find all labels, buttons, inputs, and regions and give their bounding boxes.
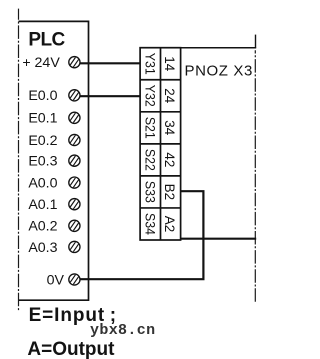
svg-text:Y32: Y32	[142, 85, 158, 107]
svg-text:A0.0: A0.0	[28, 176, 57, 192]
svg-text:24: 24	[162, 88, 178, 103]
svg-text:E0.0: E0.0	[28, 88, 57, 104]
svg-text:S33: S33	[142, 181, 158, 203]
svg-text:S21: S21	[142, 117, 158, 139]
svg-text:B2: B2	[162, 184, 178, 200]
svg-text:A0.2: A0.2	[28, 219, 57, 235]
svg-text:42: 42	[162, 152, 178, 167]
svg-text:S34: S34	[142, 213, 158, 235]
svg-text:PLC: PLC	[28, 30, 65, 51]
svg-text:A0.3: A0.3	[28, 240, 57, 256]
svg-text:A2: A2	[162, 216, 178, 232]
svg-text:E0.2: E0.2	[28, 133, 57, 149]
svg-text:Y31: Y31	[142, 53, 158, 75]
svg-text:S22: S22	[142, 149, 158, 171]
svg-text:A0.1: A0.1	[28, 197, 57, 213]
svg-text:14: 14	[162, 56, 178, 71]
svg-text:0V: 0V	[47, 272, 65, 288]
svg-text:E0.3: E0.3	[28, 154, 57, 170]
svg-text:34: 34	[162, 120, 178, 135]
svg-text:+ 24V: + 24V	[22, 55, 60, 71]
svg-text:PNOZ X3: PNOZ X3	[185, 63, 253, 80]
svg-text:E0.1: E0.1	[28, 111, 57, 127]
